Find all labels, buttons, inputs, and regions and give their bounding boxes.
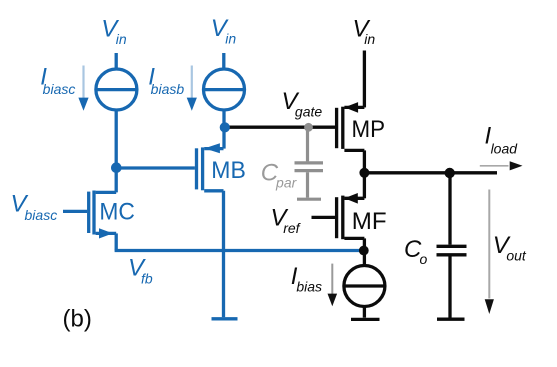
svg-text:(b): (b) xyxy=(63,306,92,333)
svg-text:MP: MP xyxy=(352,116,386,143)
svg-text:MC: MC xyxy=(99,199,134,226)
svg-text:MB: MB xyxy=(211,157,246,184)
svg-text:MF: MF xyxy=(352,208,387,235)
